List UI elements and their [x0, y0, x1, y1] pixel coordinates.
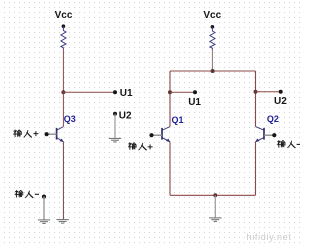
node U2 terminal (left): [113, 112, 117, 116]
svg-text:hifidiy.net: hifidiy.net: [247, 232, 292, 242]
node input+ terminal (right ckt): [149, 133, 153, 137]
node U2 junction (right ckt): [254, 90, 258, 94]
node Vcc terminal (left): [62, 24, 66, 28]
wire emitter to ground (left): [62, 142, 64, 220]
wire top rail: [170, 70, 256, 72]
svg-text:Q2: Q2: [267, 114, 279, 124]
wire right rail lower: [255, 142, 257, 196]
wire tail to ground: [214, 195, 216, 218]
svg-text:Vcc: Vcc: [203, 10, 221, 21]
wire: [62, 92, 64, 126]
node input- terminal (right ckt): [272, 133, 276, 137]
ground (right ckt): [209, 218, 221, 222]
svg-text:Vcc: Vcc: [55, 10, 73, 21]
node input- terminal (left): [42, 195, 46, 199]
resistor R1: [61, 26, 66, 49]
wire base lead Q3: [47, 133, 57, 135]
label input+ (right ckt): [128, 143, 152, 150]
svg-text:U2: U2: [119, 111, 132, 122]
node U2 terminal (right ckt): [279, 90, 283, 94]
wire left rail lower: [169, 142, 171, 196]
node U1 terminal (right ckt): [193, 90, 197, 94]
node collector junction (left): [61, 90, 65, 94]
node input+ terminal (left): [45, 132, 49, 136]
transistor Q2: [256, 127, 265, 142]
svg-text:U1: U1: [120, 88, 133, 99]
label input- (right ckt): [277, 141, 300, 148]
label input- (left): [15, 191, 39, 198]
ground (left U2): [109, 138, 121, 142]
wire left rail upper: [169, 71, 171, 127]
node top junction: [211, 69, 215, 73]
svg-text:Q3: Q3: [64, 114, 76, 124]
node U1 junction (right ckt): [168, 90, 172, 94]
resistor R2: [210, 27, 215, 50]
wire: [211, 50, 213, 72]
wire input- to ground: [43, 197, 45, 220]
node U1 terminal (left): [113, 90, 117, 94]
node bottom junction: [213, 193, 217, 197]
svg-text:Q1: Q1: [172, 115, 184, 125]
svg-text:U1: U1: [188, 97, 201, 108]
transistor Q3: [57, 127, 64, 142]
label input+ (left): [14, 130, 39, 137]
ground (left input-): [38, 220, 50, 224]
wire bottom rail: [170, 194, 256, 196]
wire U1 tap: [170, 91, 195, 93]
wire U2 tap: [256, 91, 281, 93]
wire U2 to ground: [114, 114, 116, 139]
ground (left emitter): [56, 220, 68, 224]
wire base lead Q2: [264, 134, 274, 136]
transistor Q1: [162, 127, 170, 142]
wire: [63, 91, 115, 93]
wire right rail upper: [255, 71, 257, 127]
wire base lead Q1: [152, 134, 163, 136]
wire: [62, 49, 64, 92]
node Vcc terminal (right): [211, 25, 215, 29]
svg-text:U2: U2: [274, 96, 287, 107]
